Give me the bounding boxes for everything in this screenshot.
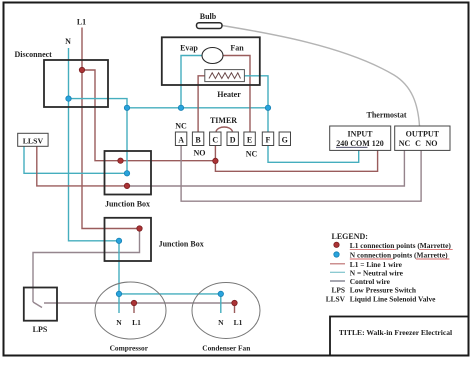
node L1 junction box 1 bottom	[124, 183, 129, 188]
svg-text:A: A	[178, 135, 184, 144]
svg-text:Junction Box: Junction Box	[105, 200, 150, 209]
timer terminal A	[175, 132, 186, 146]
node L1 condenser	[232, 300, 237, 305]
svg-text:Junction Box: Junction Box	[159, 240, 204, 249]
heater element	[205, 70, 245, 99]
junction box 2	[105, 218, 204, 261]
svg-text:240 COM 120: 240 COM 120	[336, 139, 384, 148]
node L1 compressor	[131, 300, 136, 305]
evap fan motor	[202, 48, 223, 64]
legend	[332, 232, 368, 241]
legend L1 connection point	[334, 241, 453, 250]
node N compressor	[116, 291, 121, 296]
svg-text:N: N	[218, 318, 224, 327]
wire L1 main vertical	[82, 28, 140, 229]
wire thermostat NC to junction box 1	[127, 150, 404, 186]
label Fan	[230, 44, 244, 53]
svg-text:Condenser Fan: Condenser Fan	[202, 344, 250, 353]
svg-text:NO: NO	[426, 139, 438, 148]
timer jumper arc C-D	[216, 127, 233, 132]
legend LLSV	[326, 295, 436, 304]
svg-text:NC: NC	[399, 139, 411, 148]
LPS box	[24, 288, 57, 335]
label NO below B	[194, 149, 206, 158]
thermostat input box	[330, 126, 391, 150]
wire L1 branch from disconnect to junction box 1	[82, 70, 215, 161]
timer terminal B	[192, 132, 203, 146]
node N disconnect	[66, 96, 71, 101]
svg-text:N = Neutral wire: N = Neutral wire	[350, 268, 404, 277]
compressor circle	[95, 282, 166, 353]
svg-text:LLSV: LLSV	[23, 136, 44, 145]
svg-text:N connection points (Marrette: N connection points (Marrette)	[350, 251, 448, 260]
node N heater	[265, 105, 270, 110]
disconnect box	[15, 50, 109, 107]
svg-text:L1: L1	[77, 18, 86, 27]
svg-text:INPUT: INPUT	[348, 130, 374, 139]
node N evap	[178, 105, 183, 110]
title box	[330, 317, 469, 356]
svg-text:F: F	[266, 135, 271, 144]
timer terminal E	[244, 132, 255, 146]
svg-text:D: D	[230, 135, 236, 144]
node N bus corner	[124, 105, 129, 110]
wire N bus to timer F	[267, 108, 269, 132]
evaporator box	[162, 37, 260, 85]
node L1 timer C	[213, 158, 218, 163]
wire N main vertical	[69, 48, 120, 241]
wire condenser L1 stub	[234, 303, 236, 313]
junction box 1	[105, 151, 152, 209]
wire heater neutral	[244, 76, 268, 108]
svg-text:Low Pressure Switch: Low Pressure Switch	[350, 285, 416, 294]
legend N wire	[330, 268, 404, 277]
wire compressor L1 stub	[133, 303, 135, 313]
LLSV box	[18, 133, 48, 146]
label Evap	[180, 44, 198, 53]
thermostat output box	[395, 126, 450, 150]
wire compressor to condenser neutral	[119, 294, 221, 313]
svg-text:LLSV: LLSV	[326, 295, 346, 304]
timer terminal D	[227, 132, 238, 146]
legend L1 wire	[330, 260, 403, 269]
wire timer F to thermostat COM	[268, 146, 359, 163]
svg-text:LPS: LPS	[33, 325, 48, 334]
timer terminal G	[279, 132, 290, 146]
wire fan motor L1 to timer E	[223, 56, 250, 133]
label N	[65, 37, 71, 46]
svg-text:Liquid Line Solenoid Valve: Liquid Line Solenoid Valve	[350, 295, 436, 304]
svg-text:Heater: Heater	[217, 90, 241, 99]
LPS switch blade	[33, 302, 42, 308]
svg-text:TIMER: TIMER	[210, 116, 237, 125]
thermostat capillary tube	[222, 26, 420, 127]
bulb	[197, 12, 223, 29]
label NC below E	[246, 150, 258, 159]
svg-text:Evap: Evap	[180, 44, 198, 53]
label TIMER	[210, 116, 237, 125]
svg-text:C: C	[415, 139, 421, 148]
label L1	[77, 18, 86, 27]
svg-text:G: G	[282, 135, 288, 144]
legend N connection point	[334, 251, 450, 260]
svg-text:LPS: LPS	[331, 285, 345, 294]
svg-text:N: N	[65, 37, 71, 46]
wire N from disconnect to N bus	[69, 99, 269, 108]
wire evap motor neutral	[181, 56, 202, 108]
node L1 junction box 2	[137, 226, 142, 231]
svg-text:Disconnect: Disconnect	[15, 50, 53, 59]
wire junction box 2 to compressor neutral	[118, 241, 120, 313]
wire timer C to thermostat 120	[215, 146, 377, 172]
svg-text:B: B	[195, 135, 201, 144]
node N junction box 2	[116, 238, 121, 243]
wire N drop to junction box 1	[126, 108, 128, 174]
svg-text:NC: NC	[175, 122, 187, 131]
svg-text:NC: NC	[246, 150, 258, 159]
timer terminal F	[262, 132, 273, 146]
svg-text:L1: L1	[132, 318, 141, 327]
wire LLSV neutral	[24, 146, 127, 173]
legend control wire	[330, 277, 391, 286]
svg-text:E: E	[247, 135, 252, 144]
timer terminal C	[210, 132, 221, 146]
node N condenser	[218, 291, 223, 296]
svg-text:LEGEND:: LEGEND:	[332, 232, 368, 241]
label NC above A	[175, 122, 187, 131]
svg-text:L1: L1	[234, 318, 243, 327]
svg-text:C: C	[212, 135, 218, 144]
svg-text:Fan: Fan	[230, 44, 244, 53]
label Thermostat	[367, 111, 407, 120]
node L1 disconnect	[79, 67, 84, 72]
wire thermostat C to timer A	[181, 146, 421, 202]
svg-text:Bulb: Bulb	[200, 12, 217, 21]
svg-text:Compressor: Compressor	[110, 344, 149, 353]
wire junction box 2 to LPS	[33, 229, 140, 303]
svg-text:TITLE: Walk-in Freezer Electri: TITLE: Walk-in Freezer Electrical	[339, 328, 452, 337]
svg-text:L1 connection points (Marrett: L1 connection points (Marrette)	[350, 241, 452, 250]
node N junction box 1	[124, 171, 129, 176]
wire LLSV L1	[37, 146, 127, 186]
legend LPS	[331, 285, 416, 294]
wire LPS to compressor and condenser L1	[44, 302, 235, 304]
svg-text:NO: NO	[194, 149, 206, 158]
node L1 junction box 1 top	[118, 158, 123, 163]
wire heater L1 to timer B	[198, 76, 205, 132]
condenser fan circle	[192, 283, 260, 353]
svg-text:OUTPUT: OUTPUT	[406, 130, 440, 139]
svg-text:N: N	[116, 318, 122, 327]
svg-text:Thermostat: Thermostat	[367, 111, 407, 120]
